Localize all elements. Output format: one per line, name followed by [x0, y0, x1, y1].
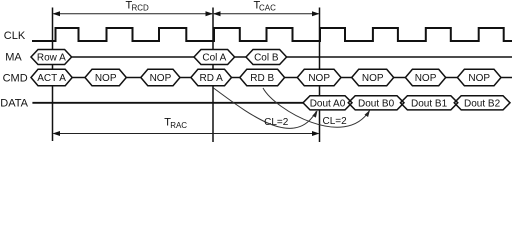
svg-text:CL=2: CL=2	[323, 116, 348, 127]
svg-text:RCD: RCD	[132, 4, 150, 13]
svg-text:Col B: Col B	[254, 53, 279, 64]
CMD bubble NOP	[85, 69, 126, 86]
CMD bubble ACT A	[31, 69, 72, 86]
svg-text:Row A: Row A	[37, 53, 66, 64]
DATA bubble Dout B0	[348, 96, 404, 110]
CMD bubble NOP	[297, 69, 341, 86]
dimension arrow T_RCD	[54, 13, 213, 15]
CL=2 arc from RD A to Dout A0	[214, 88, 317, 128]
svg-text:DATA: DATA	[0, 97, 28, 109]
CL=2 arc from RD B to Dout B0	[263, 88, 370, 127]
svg-text:NOP: NOP	[308, 73, 330, 84]
svg-text:ACT A: ACT A	[37, 73, 66, 84]
MA bus line	[72, 56, 194, 58]
svg-text:NOP: NOP	[468, 73, 490, 84]
CMD bubble NOP	[352, 69, 394, 86]
CMD bus line	[72, 77, 85, 79]
svg-text:Dout B1: Dout B1	[411, 98, 448, 109]
svg-text:MA: MA	[5, 52, 22, 64]
svg-text:Dout A0: Dout A0	[310, 98, 346, 109]
MA bubble Col A	[194, 50, 235, 65]
svg-text:CL=2: CL=2	[264, 117, 289, 128]
CMD bubble NOP	[405, 69, 445, 86]
DATA bus line	[32, 102, 303, 104]
svg-text:Dout B0: Dout B0	[358, 98, 395, 109]
tick line t1 (first rising clock edge marker)	[52, 8, 54, 142]
svg-text:RD A: RD A	[200, 73, 224, 84]
DATA bubble Dout B2	[454, 96, 510, 110]
svg-text:NOP: NOP	[150, 73, 172, 84]
DATA bubble Dout A0	[303, 96, 352, 110]
svg-text:RAC: RAC	[170, 121, 187, 130]
svg-text:NOP: NOP	[362, 73, 384, 84]
svg-text:NOP: NOP	[415, 73, 437, 84]
dimension arrow T_RAC	[54, 133, 319, 135]
CMD bubble RD B	[240, 69, 285, 86]
svg-text:CAC: CAC	[259, 4, 276, 13]
MA bubble Col B	[246, 50, 287, 65]
svg-text:CLK: CLK	[4, 30, 26, 42]
CMD bubble NOP	[457, 69, 501, 86]
tick line t2 (RD A clock edge marker)	[212, 8, 214, 143]
CMD bubble RD A	[191, 69, 232, 86]
DATA bubble Dout B1	[400, 96, 457, 110]
svg-text:NOP: NOP	[95, 73, 117, 84]
svg-text:CMD: CMD	[3, 73, 28, 85]
svg-text:Dout B2: Dout B2	[464, 98, 501, 109]
tick line t3 (data out clock edge marker)	[319, 8, 321, 143]
svg-text:Col A: Col A	[202, 53, 226, 64]
CLK waveform	[32, 28, 512, 41]
CMD bubble NOP	[141, 69, 180, 86]
MA bubble Row A	[31, 50, 72, 65]
DATA bubbles white fill group	[303, 96, 510, 110]
dimension arrow T_CAC	[214, 13, 319, 15]
svg-text:RD B: RD B	[250, 73, 274, 84]
